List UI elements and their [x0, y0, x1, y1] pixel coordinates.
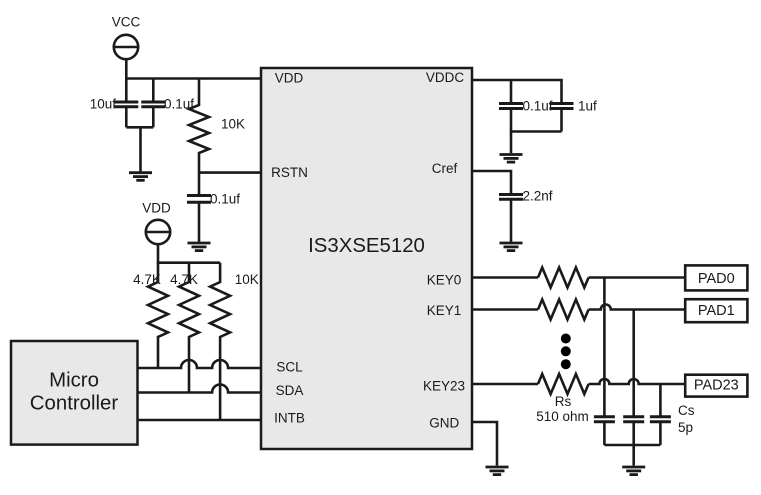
ellipsis dots	[561, 334, 571, 370]
svg-text:PAD1: PAD1	[698, 303, 735, 319]
resistor Rs1	[538, 300, 589, 320]
ground under C6	[500, 243, 523, 251]
wire KEY1	[472, 308, 538, 311]
capacitor C4 0.1uf	[499, 80, 553, 132]
capacitor C6 2.2nf	[499, 189, 553, 243]
svg-text:KEY0: KEY0	[427, 272, 462, 287]
wire SCL with hops	[138, 360, 262, 368]
wire Cref	[472, 171, 511, 195]
capacitor C5 1uf	[550, 99, 598, 132]
svg-text:2.2nf: 2.2nf	[523, 189, 553, 204]
svg-text:IS3XSE5120: IS3XSE5120	[308, 235, 425, 257]
PAD0 box	[685, 265, 747, 290]
wire tap KEY23 down	[659, 384, 662, 416]
svg-text:4.7K: 4.7K	[133, 272, 161, 287]
svg-text:SCL: SCL	[276, 360, 303, 375]
svg-text:INTB: INTB	[274, 411, 305, 426]
svg-text:Micro: Micro	[49, 370, 99, 392]
wire GND pin	[472, 422, 497, 466]
ground under VDDC caps	[500, 155, 523, 163]
wire VCC stem	[125, 59, 128, 78]
svg-text:KEY23: KEY23	[423, 378, 465, 393]
wire cap join VDDC	[511, 132, 562, 154]
svg-text:510 ohm: 510 ohm	[536, 409, 589, 424]
svg-text:KEY1: KEY1	[427, 303, 462, 318]
capacitor Cs2	[623, 417, 644, 445]
resistor Rs 510 ohm	[536, 374, 589, 424]
svg-text:10K: 10K	[221, 117, 245, 132]
resistor R4 10K	[210, 263, 259, 420]
svg-text:Cref: Cref	[432, 161, 458, 176]
svg-text:RSTN: RSTN	[271, 165, 308, 180]
ground under C1 C2	[129, 173, 152, 181]
Micro Controller box	[11, 341, 138, 445]
svg-text:4.7K: 4.7K	[170, 272, 198, 287]
power symbol VCC	[112, 15, 141, 60]
wire Cs bottom rail	[604, 445, 660, 466]
wire VDDC	[472, 80, 562, 102]
svg-text:VDDC: VDDC	[426, 70, 465, 85]
ground under C3	[188, 243, 211, 251]
wire cap join	[126, 127, 153, 172]
wire SDA with hop	[138, 385, 262, 393]
resistor R2 4.7K	[133, 263, 168, 368]
svg-text:5p: 5p	[678, 420, 693, 435]
ground under GND pin	[486, 467, 509, 475]
svg-text:0.1uf: 0.1uf	[210, 191, 240, 206]
wire KEY0 to PAD0	[589, 276, 686, 279]
svg-text:0.1uf: 0.1uf	[523, 99, 553, 114]
svg-text:PAD23: PAD23	[694, 377, 739, 393]
wire tap KEY0 down	[603, 278, 606, 417]
PAD1 box	[685, 299, 747, 322]
svg-text:PAD0: PAD0	[698, 271, 735, 287]
capacitor Cs3 label Cs 5p	[650, 403, 695, 445]
wire RSTN	[199, 171, 261, 174]
svg-text:10uf: 10uf	[90, 96, 117, 111]
ground under Cs	[622, 467, 645, 475]
wire tap KEY1 down	[632, 310, 635, 417]
svg-text:1uf: 1uf	[578, 99, 597, 114]
svg-text:VCC: VCC	[112, 15, 141, 30]
wire KEY1 to PAD1 with hop	[589, 305, 686, 310]
wire VDD stem and pullup rail	[158, 244, 220, 263]
capacitor C2 0.1uf	[141, 79, 194, 128]
PAD23 box	[685, 375, 747, 397]
capacitor C3 0.1uf	[187, 173, 240, 243]
svg-text:Controller: Controller	[30, 393, 119, 415]
wire KEY0	[472, 276, 538, 279]
svg-text:GND: GND	[429, 416, 459, 431]
wire KEY23 to PAD23 with hops	[589, 379, 686, 384]
svg-text:VDD: VDD	[142, 201, 171, 216]
power symbol VDD	[142, 201, 171, 245]
wire KEY23	[472, 383, 538, 386]
resistor R3 4.7K	[170, 263, 199, 393]
capacitor C1 10uf	[90, 79, 139, 128]
wire INTB	[138, 419, 262, 422]
capacitor Cs1	[594, 417, 615, 445]
resistor R1 10K	[189, 79, 245, 173]
svg-text:VDD: VDD	[275, 71, 304, 86]
resistor Rs0	[538, 268, 589, 288]
wire VDD rail to IC	[126, 77, 261, 80]
svg-text:Rs: Rs	[555, 394, 572, 409]
svg-text:10K: 10K	[235, 272, 259, 287]
IC U1 IS3XSE5120	[261, 68, 472, 449]
svg-text:SDA: SDA	[276, 383, 304, 398]
svg-text:Cs: Cs	[678, 403, 695, 418]
